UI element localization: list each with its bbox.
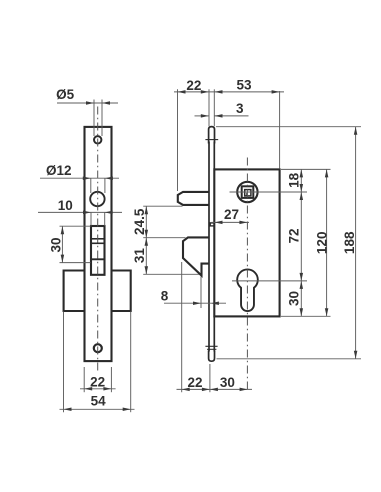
svg-text:22: 22	[186, 78, 201, 93]
svg-text:22: 22	[187, 375, 202, 390]
svg-text:53: 53	[236, 77, 252, 92]
svg-text:120: 120	[315, 232, 330, 255]
svg-text:31: 31	[132, 248, 147, 264]
svg-text:27: 27	[224, 207, 239, 222]
svg-text:30: 30	[287, 291, 302, 306]
svg-text:24.5: 24.5	[132, 208, 147, 235]
svg-text:22: 22	[90, 374, 105, 389]
svg-text:8: 8	[161, 289, 169, 304]
svg-text:72: 72	[287, 228, 302, 243]
svg-text:30: 30	[48, 237, 63, 252]
svg-text:54: 54	[91, 393, 107, 408]
svg-text:3: 3	[236, 101, 244, 116]
svg-text:30: 30	[220, 375, 235, 390]
svg-text:Ø12: Ø12	[46, 163, 72, 178]
svg-text:188: 188	[342, 231, 357, 254]
svg-text:10: 10	[58, 198, 73, 213]
svg-text:Ø5: Ø5	[56, 87, 75, 102]
svg-text:18: 18	[287, 172, 302, 188]
